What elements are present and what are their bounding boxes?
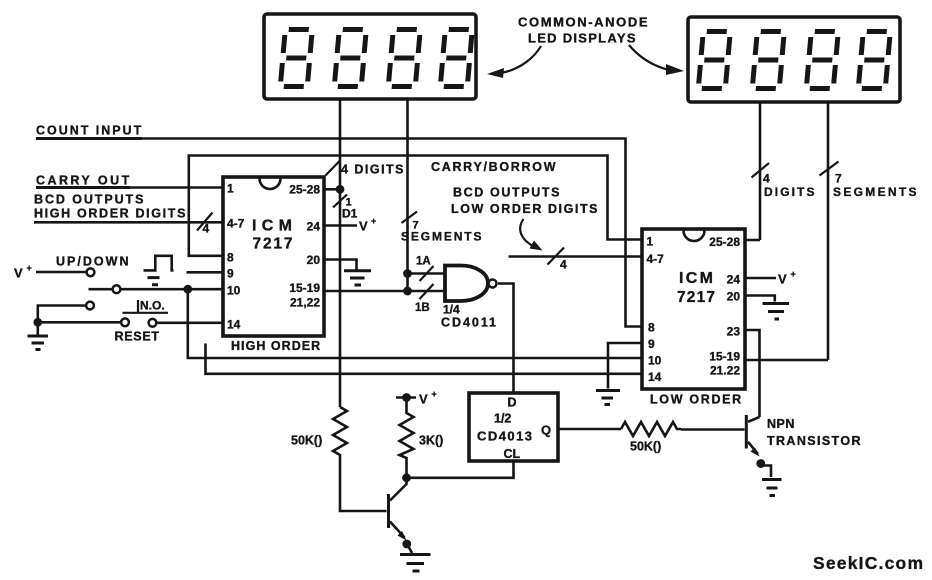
svg-text:1/4: 1/4 bbox=[443, 303, 460, 317]
flip-flop U4 1/2 CD4013 bbox=[469, 393, 558, 461]
wire 1A input bbox=[408, 272, 445, 275]
svg-text:COMMON-ANODE: COMMON-ANODE bbox=[518, 15, 648, 30]
transistor Q1 bbox=[387, 494, 390, 528]
svg-text:4 DIGITS: 4 DIGITS bbox=[341, 163, 404, 177]
svg-text:+: + bbox=[371, 216, 376, 226]
svg-text:D: D bbox=[508, 396, 517, 410]
junction bbox=[183, 285, 192, 294]
wire U2 pin 20 to ground bbox=[744, 296, 775, 302]
junction Q2 emitter bbox=[756, 459, 765, 468]
svg-text:N.O.: N.O. bbox=[140, 299, 165, 313]
svg-text:D1: D1 bbox=[342, 207, 358, 221]
wire to U1 pin 14 bbox=[157, 321, 223, 324]
junction 1A bbox=[403, 269, 412, 278]
svg-text:7: 7 bbox=[835, 172, 842, 186]
svg-text:LED DISPLAYS: LED DISPLAYS bbox=[528, 31, 636, 46]
bus slash 4 wide bbox=[197, 213, 213, 231]
svg-text:UP/DOWN: UP/DOWN bbox=[56, 255, 129, 269]
wire U1 pin 25-28 bbox=[324, 188, 340, 191]
transistor Q2 NPN bbox=[745, 415, 748, 449]
svg-text:15-19: 15-19 bbox=[709, 350, 740, 364]
svg-text:20: 20 bbox=[307, 253, 321, 267]
wire emitter to ground bbox=[763, 466, 771, 478]
svg-text:V: V bbox=[419, 392, 428, 407]
wire U2 pin 9 to ground bbox=[608, 343, 642, 389]
wire junction to U4 CL bbox=[407, 461, 514, 478]
svg-text:HIGH ORDER DIGITS: HIGH ORDER DIGITS bbox=[34, 207, 186, 221]
IC U2 ICM7217 low order bbox=[642, 229, 745, 389]
svg-text:9: 9 bbox=[648, 337, 655, 351]
svg-text:1A: 1A bbox=[416, 256, 431, 268]
svg-text:4: 4 bbox=[203, 222, 210, 236]
DS2 digit 2 bbox=[752, 32, 784, 89]
resistor R2 3K bbox=[400, 398, 414, 478]
wire BCD bus to U2 pin 4-7 bbox=[509, 255, 643, 258]
svg-text:+: + bbox=[27, 263, 32, 273]
svg-text:+: + bbox=[432, 389, 437, 399]
svg-text:1: 1 bbox=[227, 182, 234, 196]
svg-text:V: V bbox=[14, 266, 23, 281]
junction bbox=[336, 185, 345, 194]
wire U4 Q to R3 bbox=[558, 428, 621, 431]
reset switch contact 2 bbox=[149, 319, 157, 327]
DS1 digit 1 bbox=[280, 30, 312, 87]
svg-text:9: 9 bbox=[227, 267, 234, 281]
switch throw to ground bbox=[86, 302, 94, 310]
svg-text:21.22: 21.22 bbox=[710, 364, 740, 378]
ground bbox=[763, 304, 790, 320]
wire gate output to U4 D bbox=[498, 284, 514, 394]
svg-text:4: 4 bbox=[763, 172, 770, 186]
wire U2 pin 25-28 to DS2 bbox=[744, 102, 760, 240]
svg-text:24: 24 bbox=[727, 273, 741, 287]
switch pole bbox=[113, 285, 121, 293]
slash 4 digits DS1 bbox=[326, 161, 341, 176]
ground Q2 bbox=[762, 480, 782, 496]
svg-text:ICM: ICM bbox=[252, 218, 292, 235]
svg-text:20: 20 bbox=[727, 290, 741, 304]
svg-text:NPN: NPN bbox=[767, 417, 795, 431]
wire R1 to Q1 base bbox=[340, 460, 387, 511]
DS2 digit 4 bbox=[858, 32, 890, 89]
arrow to DS2 bbox=[629, 45, 667, 70]
svg-text:24: 24 bbox=[307, 220, 321, 234]
switch pole arm bbox=[89, 288, 113, 291]
DS2 digit 3 bbox=[806, 32, 838, 89]
svg-text:BCD OUTPUTS: BCD OUTPUTS bbox=[453, 186, 560, 200]
wire BCD bus to U1 pin 4-7 bbox=[34, 221, 223, 224]
wire R3 to Q2 base bbox=[681, 428, 745, 431]
NAND gate U3 1/4 CD4011 bbox=[445, 266, 488, 302]
svg-text:7217: 7217 bbox=[253, 236, 293, 253]
wire U1 pin 9 bbox=[187, 271, 224, 274]
slash 1B bbox=[420, 284, 434, 299]
svg-text:7217: 7217 bbox=[677, 289, 715, 306]
svg-text:V: V bbox=[359, 219, 368, 234]
svg-text:10: 10 bbox=[227, 284, 241, 298]
junction bbox=[33, 318, 42, 327]
resistor R3 50K horizontal bbox=[621, 422, 681, 436]
svg-text:COUNT INPUT: COUNT INPUT bbox=[36, 124, 142, 138]
DS1 digit 4 bbox=[440, 30, 472, 87]
wire reset to U2 pin 14 bbox=[206, 344, 643, 374]
wire up/down to U2 pin 10 bbox=[188, 289, 642, 358]
svg-text:BCD OUTPUTS: BCD OUTPUTS bbox=[34, 193, 144, 207]
slash 1A bbox=[420, 266, 434, 281]
slash 1 bbox=[333, 195, 347, 208]
pulse source ground bbox=[148, 278, 160, 285]
svg-text:25-28: 25-28 bbox=[709, 235, 740, 249]
ground bbox=[36, 322, 39, 335]
arrow to DS1 bbox=[503, 46, 541, 73]
svg-text:4-7: 4-7 bbox=[227, 217, 245, 231]
svg-text:1/2: 1/2 bbox=[494, 412, 511, 426]
wire U1 pin 24 to V+ bbox=[324, 224, 357, 227]
wire DS1 digit drivers: display to junction bbox=[339, 99, 342, 189]
wire U2 pin 15-19,21,22 to DS2 segments bbox=[744, 102, 828, 360]
wire count input to U2 pin 8 bbox=[36, 139, 642, 327]
wire carry out to U1 pin 1 bbox=[36, 186, 223, 189]
svg-text:SEGMENTS: SEGMENTS bbox=[833, 185, 917, 199]
svg-text:8: 8 bbox=[648, 321, 655, 335]
svg-text:25-28: 25-28 bbox=[289, 183, 320, 197]
junction Q1 emitter bbox=[402, 540, 411, 549]
ground Q1 bbox=[409, 547, 413, 554]
wire junction down to R1 (through D1 marker) bbox=[339, 189, 342, 407]
wire U1 pin 20 to ground bbox=[324, 260, 357, 270]
switch contact bbox=[87, 268, 95, 276]
wire pole to U1 pin 10 bbox=[121, 288, 223, 291]
LED display DS2 (low order, right) bbox=[688, 17, 900, 102]
svg-text:ICM: ICM bbox=[679, 270, 713, 287]
svg-text:CARRY OUT: CARRY OUT bbox=[36, 174, 130, 188]
svg-text:CD4011: CD4011 bbox=[441, 316, 496, 330]
LED display DS1 (high order, left) bbox=[264, 14, 476, 99]
wire U2 pin 24 to V+ bbox=[744, 277, 776, 280]
slash 7 segments DS1 bbox=[402, 212, 418, 224]
svg-text:8: 8 bbox=[227, 251, 234, 265]
svg-text:CARRY/BORROW: CARRY/BORROW bbox=[431, 160, 556, 174]
wire U1 pin 15-19,21,22 segment bus to gate bbox=[324, 290, 444, 293]
junction R2/Q1 collector/CL bbox=[402, 473, 411, 482]
svg-text:LOW ORDER: LOW ORDER bbox=[650, 393, 742, 407]
wire U2 pin 23 to Q2 collector bbox=[744, 330, 760, 417]
pulse source symbol bbox=[144, 256, 174, 271]
svg-text:4-7: 4-7 bbox=[647, 252, 665, 266]
svg-text:RESET: RESET bbox=[115, 330, 160, 344]
DS2 digit 1 bbox=[698, 32, 730, 89]
ground bbox=[344, 271, 371, 285]
svg-text:CD4013: CD4013 bbox=[477, 429, 532, 444]
wire DS1 segments down to gate inputs bbox=[406, 99, 409, 291]
svg-text:LOW ORDER DIGITS: LOW ORDER DIGITS bbox=[451, 202, 598, 216]
IC U1 ICM7217 high order bbox=[223, 177, 324, 336]
svg-text:21,22: 21,22 bbox=[290, 296, 320, 310]
svg-text:+: + bbox=[791, 269, 796, 279]
DS1 digit 2 bbox=[334, 30, 366, 87]
svg-text:Q: Q bbox=[541, 423, 551, 438]
resistor R1 50K bbox=[333, 407, 347, 460]
svg-text:V: V bbox=[778, 272, 787, 287]
svg-text:DIGITS: DIGITS bbox=[764, 185, 815, 199]
svg-text:3K(): 3K() bbox=[419, 434, 443, 448]
wire V+ to switch bbox=[36, 271, 86, 274]
svg-text:SeekIC.com: SeekIC.com bbox=[813, 553, 923, 573]
svg-text:4: 4 bbox=[560, 258, 567, 272]
ground bbox=[596, 391, 620, 405]
svg-text:14: 14 bbox=[648, 370, 662, 384]
svg-text:HIGH ORDER: HIGH ORDER bbox=[231, 339, 321, 353]
wire carry/borrow U2 pin1 to U1 pin8 bbox=[189, 156, 642, 256]
svg-text:1: 1 bbox=[647, 235, 654, 249]
DS1 digit 3 bbox=[388, 30, 420, 87]
svg-text:TRANSISTOR: TRANSISTOR bbox=[767, 434, 861, 448]
slash 4 digits DS2 bbox=[752, 163, 770, 178]
svg-text:50K(): 50K() bbox=[291, 434, 322, 448]
svg-text:14: 14 bbox=[227, 318, 241, 332]
svg-text:50K(): 50K() bbox=[630, 440, 661, 454]
arrow to BCD bus bbox=[520, 219, 533, 246]
svg-text:10: 10 bbox=[648, 354, 662, 368]
node V+ at R2 bbox=[396, 396, 416, 399]
junction 1B bbox=[403, 287, 412, 296]
slash 7 segments DS2 bbox=[820, 162, 839, 176]
svg-text:1B: 1B bbox=[415, 302, 430, 314]
wire ground to reset switch bbox=[41, 321, 121, 324]
bus slash bbox=[548, 248, 565, 265]
svg-text:15-19: 15-19 bbox=[289, 281, 320, 295]
svg-text:23: 23 bbox=[727, 325, 741, 339]
svg-text:SEGMENTS: SEGMENTS bbox=[401, 230, 482, 244]
svg-text:CL: CL bbox=[504, 447, 521, 461]
reset switch contact bbox=[121, 318, 129, 326]
